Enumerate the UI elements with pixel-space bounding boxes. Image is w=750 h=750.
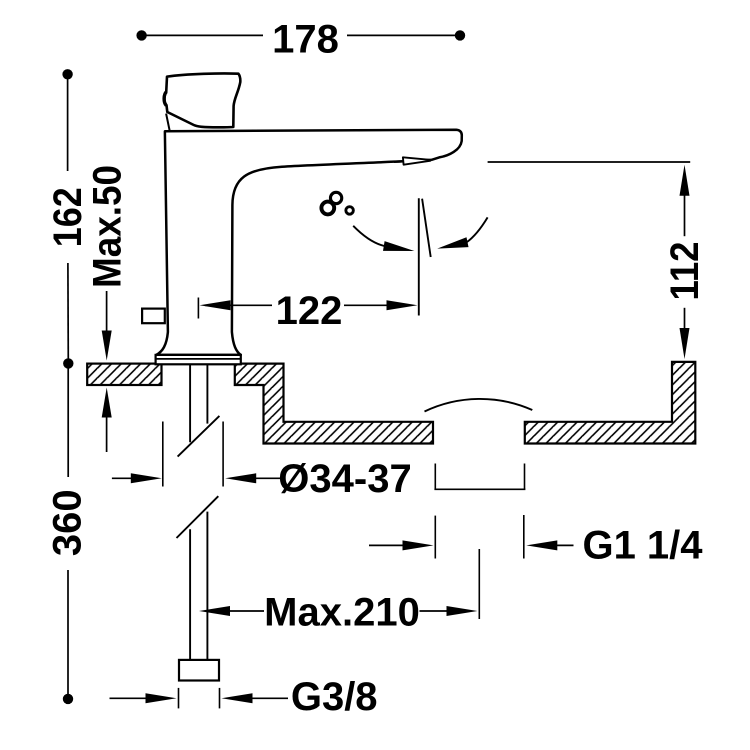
svg-text:Max.50: Max.50 [86, 165, 130, 288]
svg-text:G1 1/4: G1 1/4 [582, 524, 703, 568]
svg-text:162: 162 [46, 187, 90, 247]
svg-text:112: 112 [663, 242, 707, 301]
svg-text:178: 178 [272, 17, 339, 61]
svg-text:Max.210: Max.210 [264, 591, 420, 635]
svg-text:G3/8: G3/8 [291, 675, 378, 719]
svg-text:Ø34-37: Ø34-37 [278, 457, 411, 501]
svg-text:122: 122 [276, 289, 343, 333]
svg-text:360: 360 [46, 489, 90, 556]
